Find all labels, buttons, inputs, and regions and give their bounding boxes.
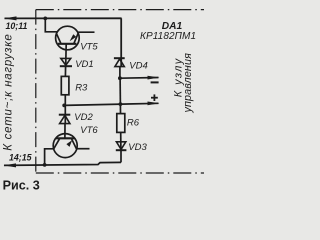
wire: VT5 emitter stub to the right <box>78 31 95 33</box>
wire: VD3 down to bottom wire <box>120 150 122 162</box>
node: junction dot on bottom wire <box>43 163 47 167</box>
wire: right vertical from top wire corner down to VD4 <box>120 18 122 66</box>
wire: plus output line to control node with right arrow <box>64 102 159 106</box>
wire: load output (pins 10;11) top wire with left arrow <box>4 16 122 20</box>
svg-text:VD3: VD3 <box>128 142 147 153</box>
svg-text:10;11: 10;11 <box>6 21 28 31</box>
diode VD1 (pointing down) <box>60 58 72 66</box>
node: junction of R3/VD2 with plus output <box>62 104 66 108</box>
node: junction where plus line crosses right vertical <box>119 102 123 106</box>
wire: bottom mains wire (pins 14;15) with left arrow <box>4 162 122 167</box>
wire: R3 to VD2 <box>64 95 66 124</box>
wire: R6 to VD3 <box>120 132 122 150</box>
node: minus output junction <box>118 76 122 80</box>
label plus sign <box>151 94 158 101</box>
svg-text:Рис. 3: Рис. 3 <box>3 178 40 192</box>
svg-text:К сети~;к нагрузке: К сети~;к нагрузке <box>2 33 14 150</box>
label minus sign <box>151 81 159 83</box>
diode VD2 (pointing up) <box>59 115 71 124</box>
diode VD3 (pointing down) <box>116 142 127 150</box>
wire: VT6 right stub <box>77 148 90 150</box>
svg-text:VD2: VD2 <box>74 112 93 123</box>
IC DA1 package outline (dash-dot) <box>36 10 204 173</box>
svg-text:VD1: VD1 <box>75 59 93 70</box>
wire: vertical from minus node down to R6 <box>119 78 121 113</box>
svg-text:14;15: 14;15 <box>9 152 32 162</box>
svg-text:VT6: VT6 <box>80 125 98 136</box>
transistor VT6 <box>53 134 77 158</box>
transistor VT5 <box>56 26 80 50</box>
wire: VT6 left lead to bottom wire <box>45 149 54 165</box>
svg-text:VT5: VT5 <box>80 42 98 53</box>
net label: К узлу управления (rotated) <box>173 53 194 114</box>
wire: VD1 to R3 <box>64 66 66 76</box>
wire: minus output line to control node with right arrow <box>120 76 160 80</box>
svg-text:R6: R6 <box>127 118 140 129</box>
wire: VD4 to minus node <box>119 67 121 78</box>
wire: VD2 to VT6 base <box>64 124 66 139</box>
wire: VT5 base lead down to VD1 <box>65 44 68 66</box>
diode VD4 (pointing up) <box>114 58 125 66</box>
node: junction dot on top wire <box>43 17 47 21</box>
svg-text:управления: управления <box>182 53 194 114</box>
svg-text:VD4: VD4 <box>129 60 147 71</box>
svg-text:КР1182ПМ1: КР1182ПМ1 <box>140 31 196 42</box>
svg-text:R3: R3 <box>75 82 88 93</box>
resistor R6 <box>117 114 125 133</box>
resistor R3 <box>61 76 69 94</box>
wire: VT5 collector drop (down then right into VT5) <box>45 18 57 31</box>
